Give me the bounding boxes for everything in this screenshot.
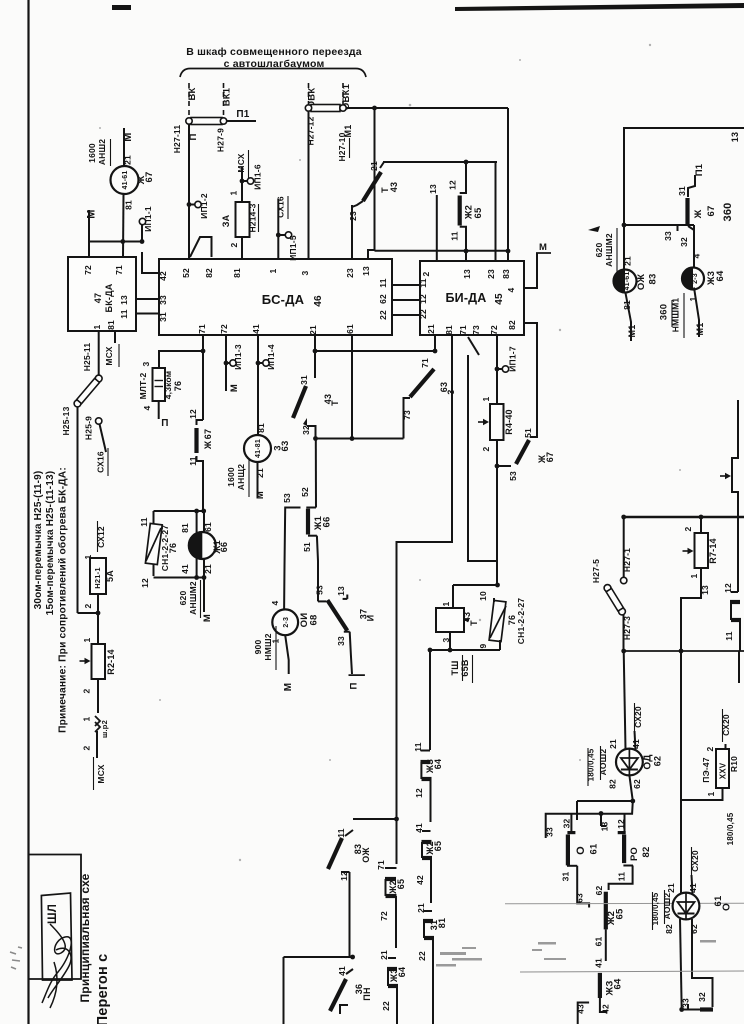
relay 63-3 АНЩ2 1600: [244, 435, 271, 462]
svg-text:И: И: [366, 615, 376, 622]
svg-text:R2-14: R2-14: [106, 649, 116, 675]
bus y957: [284, 956, 353, 958]
svg-text:М: М: [86, 209, 98, 218]
wire BI-DA 71 down: [468, 355, 498, 561]
svg-text:64: 64: [613, 978, 624, 989]
svg-text:П1: П1: [236, 109, 249, 120]
wire ОЖ to M1: [626, 293, 632, 341]
svg-text:ЗА: ЗА: [221, 214, 231, 227]
svg-text:52: 52: [181, 268, 191, 278]
wire to lamp ОД: [624, 651, 626, 749]
scan edge mark top left: [112, 5, 131, 10]
svg-text:R4-40: R4-40: [504, 409, 514, 435]
svg-text:13: 13: [428, 184, 438, 194]
wire chain A down: [396, 819, 398, 864]
svg-text:НМШ2: НМШ2: [263, 633, 273, 660]
svg-text:81: 81: [444, 325, 454, 335]
bus y438: [316, 438, 404, 440]
svg-text:41: 41: [337, 966, 347, 976]
node IP1-5: [276, 233, 281, 238]
left page border: [27, 0, 29, 1024]
svg-text:1: 1: [271, 638, 281, 643]
stub 53 with contact 51 relay 67 Ж: [497, 465, 511, 467]
terminal H27-1: [621, 577, 627, 583]
svg-text:Т: Т: [330, 400, 340, 406]
svg-text:5А: 5А: [105, 570, 115, 582]
bus y650: [430, 649, 500, 651]
bus y351 to BI-DA 21: [315, 350, 435, 352]
hook at BI-DA 73: [468, 337, 479, 355]
fuse H21-1 5A: [90, 558, 106, 594]
svg-text:33: 33: [663, 231, 673, 241]
svg-text:11: 11: [119, 309, 129, 318]
wire Ж3 to M1: [694, 288, 699, 338]
contact 12-11 of relay 65 Ж2: [460, 162, 466, 193]
terminal IP1-7: [502, 366, 508, 372]
terminal IP1-2: [189, 204, 195, 206]
svg-text:Ж2: Ж2: [464, 205, 475, 220]
svg-text:72: 72: [219, 324, 229, 334]
svg-text:БК-ДА: БК-ДА: [104, 283, 114, 312]
svg-text:1600: 1600: [226, 467, 236, 487]
wire OBK to BS-DA pin 3: [308, 112, 310, 260]
svg-text:360: 360: [659, 304, 670, 320]
terminal pair OBK-OBK1: [311, 105, 340, 112]
svg-text:R10: R10: [729, 756, 739, 772]
svg-text:11: 11: [450, 231, 460, 240]
svg-text:360: 360: [722, 203, 734, 222]
contact 33-32 bottom right: [682, 1009, 700, 1011]
svg-text:71: 71: [376, 860, 386, 870]
wire down to left mesh: [576, 801, 578, 820]
svg-text:32: 32: [697, 992, 707, 1002]
svg-text:21: 21: [608, 739, 618, 749]
svg-text:73: 73: [471, 325, 481, 335]
svg-text:51: 51: [302, 542, 312, 552]
wire R10 to lamp O wire: [681, 788, 723, 800]
svg-text:900: 900: [253, 640, 263, 655]
svg-text:3: 3: [300, 270, 310, 275]
svg-text:62: 62: [632, 779, 642, 789]
svg-text:71: 71: [114, 265, 124, 275]
wire plug to MCX: [96, 731, 98, 758]
svg-text:ш.р2: ш.р2: [100, 720, 109, 738]
svg-text:СН1-2-2-27: СН1-2-2-27: [516, 598, 526, 644]
svg-text:ОЖ: ОЖ: [361, 847, 371, 863]
wire ОИ to M: [285, 635, 289, 674]
svg-text:53: 53: [508, 471, 518, 481]
svg-text:Примечание: При сопротивлений: Примечание: При сопротивлений обогрева Б…: [57, 467, 69, 733]
terminal IP1-4: [263, 360, 269, 366]
scan edge mark top right: [455, 3, 744, 11]
svg-text:71: 71: [197, 324, 207, 334]
svg-text:О: О: [575, 846, 587, 855]
svg-text:4: 4: [270, 600, 280, 605]
svg-text:РО: РО: [629, 847, 640, 861]
svg-text:23: 23: [486, 269, 496, 279]
bus wire y162: [383, 161, 497, 163]
svg-text:ТШ: ТШ: [450, 661, 460, 676]
svg-text:11: 11: [378, 278, 388, 287]
svg-text:1: 1: [82, 716, 92, 721]
wire bus to lamp О: [680, 651, 682, 893]
wire node to BI-DA pin 13: [465, 251, 467, 261]
bus y517 thick: [624, 516, 744, 518]
link to MLT resistor: [159, 351, 203, 368]
svg-text:41: 41: [688, 883, 698, 893]
svg-text:81: 81: [180, 523, 190, 533]
big loop from OBK1 wire to BI-DA pin 83: [374, 108, 376, 250]
svg-text:64: 64: [715, 270, 726, 281]
svg-text:Н25-9: Н25-9: [84, 416, 94, 440]
svg-text:30ом-перемычка Н25-(11-9): 30ом-перемычка Н25-(11-9): [33, 471, 44, 610]
wire Ж1 to M: [203, 578, 205, 613]
svg-text:3: 3: [141, 361, 151, 366]
svg-text:1: 1: [441, 601, 451, 606]
svg-text:66: 66: [322, 517, 333, 528]
svg-text:Н27-10: Н27-10: [337, 132, 347, 161]
wire node y813: [546, 801, 633, 838]
svg-text:71: 71: [458, 325, 468, 335]
node IP1-7: [495, 367, 500, 372]
svg-text:22: 22: [378, 310, 388, 320]
svg-text:М: М: [255, 491, 266, 499]
svg-text:АНШМ2: АНШМ2: [604, 233, 614, 267]
svg-text:82: 82: [664, 924, 674, 934]
svg-text:11: 11: [617, 872, 627, 881]
svg-text:Ж: Ж: [136, 175, 147, 185]
svg-text:ЖЗ: ЖЗ: [389, 968, 399, 983]
wire to H27-1: [623, 517, 625, 577]
wire R7-14 down left: [681, 568, 701, 651]
block BS-DA: [159, 259, 392, 335]
wire P to BS-DA pin 52: [188, 125, 190, 260]
wire BK-DA pin 1 to jumper H25-11: [98, 331, 100, 375]
wire P1 right: [227, 120, 256, 122]
svg-text:76: 76: [173, 381, 183, 391]
svg-text:12: 12: [188, 409, 198, 419]
svg-text:М: М: [283, 683, 294, 692]
svg-text:Ж2: Ж2: [425, 841, 435, 856]
svg-text:ВК1: ВК1: [222, 87, 233, 106]
svg-text:Перегон с: Перегон с: [95, 954, 111, 1024]
svg-text:М: М: [539, 242, 547, 253]
svg-text:10: 10: [478, 591, 488, 601]
svg-text:АНШМ2: АНШМ2: [188, 581, 198, 615]
svg-text:15ом-перемычка Н25-(11-13): 15ом-перемычка Н25-(11-13): [45, 471, 56, 616]
svg-text:ИП1-2: ИП1-2: [199, 193, 209, 219]
svg-text:22: 22: [381, 1001, 391, 1011]
wire to BS-DA pin 23: [351, 205, 353, 259]
svg-text:2: 2: [229, 242, 239, 247]
svg-text:41: 41: [180, 564, 190, 574]
svg-text:33: 33: [336, 636, 346, 646]
svg-text:О: О: [722, 903, 733, 911]
svg-text:11: 11: [336, 828, 346, 837]
svg-text:62: 62: [689, 924, 699, 934]
svg-text:33: 33: [545, 827, 555, 837]
wire BS-DA 41 down with IP1-4: [257, 335, 259, 435]
terminal pair BK-BK1: [191, 118, 222, 125]
bus y799: [577, 800, 633, 802]
wire down to contact 52-51: [315, 439, 317, 508]
svg-text:В шкаф совмещенного переезда: В шкаф совмещенного переезда: [186, 46, 362, 58]
wire fuse to BS-DA pin 81: [241, 237, 243, 259]
wire BS-DA 71 down: [202, 335, 204, 420]
svg-text:21: 21: [666, 883, 676, 893]
svg-text:СХ16: СХ16: [96, 451, 106, 473]
svg-text:2: 2: [683, 526, 693, 531]
relay ОИ НМШ2 900: [272, 609, 298, 635]
svg-text:62: 62: [594, 886, 604, 896]
svg-text:СН1-2-2-27: СН1-2-2-27: [160, 525, 170, 571]
wire to BS-DA 42: [142, 252, 159, 273]
svg-text:41-61: 41-61: [122, 171, 129, 190]
faint scan line bottom: [520, 971, 744, 972]
svg-text:82: 82: [204, 268, 214, 278]
stamp box ШЛ: [41, 893, 72, 980]
wire to TSh box: [452, 585, 454, 608]
node IP1-6: [240, 179, 245, 184]
wire R2-14 to plug: [97, 679, 99, 713]
scan noise smudges: [436, 940, 716, 967]
svg-text:Т: Т: [380, 187, 390, 193]
svg-text:12: 12: [418, 294, 428, 304]
svg-text:М: М: [202, 614, 213, 622]
signature: [42, 924, 71, 1008]
svg-text:М: М: [122, 132, 134, 141]
svg-text:31: 31: [429, 920, 439, 930]
block BK-DA: [68, 257, 136, 331]
svg-text:МСХ: МСХ: [96, 764, 106, 783]
jumper H25-11 / H25-13: [74, 375, 102, 407]
svg-text:БИ-ДА: БИ-ДА: [445, 291, 486, 305]
svg-text:21: 21: [123, 155, 133, 165]
bus y511: [154, 510, 204, 512]
svg-text:81: 81: [256, 423, 266, 433]
wire to P stub bottom: [350, 632, 352, 674]
svg-text:71: 71: [420, 358, 430, 368]
svg-text:1: 1: [689, 573, 699, 578]
svg-text:31: 31: [299, 375, 309, 385]
svg-text:ИП1-5: ИП1-5: [288, 235, 298, 261]
wire BI-DA pin 82 right: [524, 323, 537, 430]
svg-text:33: 33: [158, 295, 168, 305]
svg-text:65В: 65В: [460, 659, 470, 676]
svg-text:65: 65: [615, 908, 626, 919]
wire to relay ОЖ: [623, 225, 625, 269]
svg-text:620: 620: [594, 243, 604, 258]
svg-text:Принципиальная схе: Принципиальная схе: [78, 873, 92, 1002]
svg-text:АОШ2: АОШ2: [662, 893, 672, 920]
svg-text:12: 12: [140, 578, 150, 588]
terminal IP1-5: [285, 232, 291, 238]
wire to bottom bus: [349, 872, 351, 957]
svg-text:Н21-1: Н21-1: [93, 567, 102, 588]
svg-text:63: 63: [575, 893, 585, 903]
wire relay Zh down to BK-DA pin 71: [122, 194, 125, 257]
svg-text:72: 72: [379, 911, 389, 921]
wire BI-DA pin 4 to M: [524, 253, 537, 288]
wires BS-DA to BI-DA: [392, 284, 420, 286]
svg-text:62: 62: [653, 756, 663, 766]
M net stub above relay Zh: [123, 128, 125, 167]
svg-text:31: 31: [158, 312, 168, 322]
wire to relay Ж3: [693, 225, 695, 267]
bus y819: [353, 818, 397, 820]
svg-text:61: 61: [589, 843, 600, 854]
svg-text:13: 13: [336, 586, 346, 596]
svg-text:Н27-5: Н27-5: [591, 559, 601, 583]
svg-text:ИП1-4: ИП1-4: [266, 344, 276, 370]
svg-text:1600: 1600: [87, 143, 97, 163]
svg-text:31: 31: [561, 872, 571, 882]
svg-text:83: 83: [501, 269, 511, 279]
svg-text:61: 61: [594, 937, 604, 947]
svg-text:ЖЗ: ЖЗ: [425, 759, 435, 774]
svg-text:45: 45: [494, 293, 505, 305]
svg-text:2: 2: [481, 446, 491, 451]
svg-text:65: 65: [473, 207, 484, 218]
resistor МЛТ-2 4.3ком: [153, 368, 166, 401]
node IP1-2: [187, 202, 192, 207]
svg-text:Н25-11: Н25-11: [82, 343, 92, 372]
svg-text:42: 42: [158, 271, 168, 281]
wire relay 63-3 to M: [257, 462, 259, 497]
svg-text:2: 2: [82, 688, 92, 693]
right edge wire upper: [732, 400, 738, 592]
svg-text:41-81: 41-81: [255, 439, 262, 458]
contact 52-51 relay 66 Ж1: [306, 507, 316, 509]
resistor R4-40: [490, 404, 504, 440]
lamp О АОШ2 180/0.45: [673, 893, 700, 920]
svg-text:81: 81: [106, 320, 116, 330]
svg-text:ПН: ПН: [362, 987, 372, 1000]
stub bottom cut: [340, 1005, 348, 1014]
svg-text:Ж1: Ж1: [212, 540, 222, 555]
node on Zh wire: [120, 239, 125, 244]
dashed lead BK: [188, 83, 190, 117]
svg-text:П: П: [161, 418, 168, 429]
svg-text:П1: П1: [694, 163, 705, 176]
svg-text:М: М: [229, 384, 240, 392]
svg-text:ОЖ: ОЖ: [636, 274, 647, 290]
svg-text:Н25-13: Н25-13: [61, 406, 71, 435]
wire lamp О 62 down hook: [692, 919, 713, 1007]
svg-text:46: 46: [313, 295, 324, 307]
wire BS-DA 72 down with IP1-3: [225, 335, 227, 391]
svg-text:Н27-9: Н27-9: [216, 128, 226, 152]
svg-text:АНЩ2: АНЩ2: [236, 464, 246, 491]
svg-text:180/0,45: 180/0,45: [726, 812, 735, 845]
svg-text:68: 68: [309, 615, 320, 626]
svg-text:21: 21: [379, 950, 389, 960]
wire R4-40 down: [496, 440, 498, 585]
svg-text:13: 13: [462, 269, 472, 279]
svg-text:2: 2: [705, 746, 715, 751]
terminal H25-9 with CX16 tail: [96, 418, 102, 424]
node to TSh: [495, 583, 500, 588]
wire jumper to bus y651: [623, 615, 625, 651]
svg-text:ИП1-6: ИП1-6: [253, 164, 263, 190]
chain wire down from TSh: [429, 650, 431, 750]
right edge stub below bus: [738, 651, 740, 683]
svg-text:4: 4: [142, 405, 152, 410]
svg-text:12: 12: [448, 180, 458, 190]
svg-text:4: 4: [692, 253, 702, 258]
svg-text:9: 9: [478, 643, 488, 648]
bracket: [180, 69, 366, 78]
svg-text:83: 83: [648, 274, 659, 285]
svg-text:1: 1: [706, 791, 716, 796]
wire BK-DA pin 81 to MCX stub: [114, 331, 116, 343]
link y241 to pin 72 wire: [89, 241, 123, 243]
svg-text:ВК: ВК: [187, 87, 198, 100]
svg-text:Н27-12: Н27-12: [306, 116, 316, 145]
svg-text:13: 13: [361, 266, 371, 276]
svg-text:13: 13: [700, 585, 710, 595]
svg-text:32: 32: [679, 237, 689, 247]
lamp ОД АОШ2 180/0.45: [616, 749, 643, 776]
svg-text:ШЛ: ШЛ: [47, 904, 59, 924]
bus 13 top right: [624, 128, 744, 225]
svg-text:41: 41: [594, 958, 604, 968]
svg-text:72: 72: [83, 265, 93, 275]
svg-text:12: 12: [414, 788, 424, 798]
wire lamp ОД down: [629, 775, 632, 801]
node chain A: [394, 817, 399, 822]
svg-text:Ж: Ж: [693, 209, 704, 219]
svg-text:82: 82: [608, 779, 618, 789]
svg-text:31: 31: [677, 186, 687, 196]
svg-text:21: 21: [308, 325, 318, 335]
svg-text:81: 81: [124, 200, 134, 210]
label АНШМ2 620 with arrow: [588, 226, 600, 232]
svg-text:М1: М1: [627, 325, 637, 338]
relay Zh АНШ2 1600: [111, 166, 139, 194]
svg-text:42: 42: [601, 1004, 611, 1014]
wire fuse to node: [97, 594, 99, 644]
wire MLT to P stub: [158, 401, 160, 419]
svg-text:2: 2: [83, 603, 93, 608]
wire lamp О 82 down: [680, 919, 682, 1010]
left margin marks: [10, 947, 22, 969]
svg-text:Ж2: Ж2: [388, 880, 398, 895]
wire BS-DA 61 down: [351, 335, 353, 439]
svg-text:41: 41: [631, 739, 641, 749]
svg-text:42: 42: [415, 875, 425, 885]
svg-text:53: 53: [315, 585, 325, 595]
relay Ж3 НМШМ1 360: [682, 268, 704, 290]
svg-text:620: 620: [178, 591, 188, 606]
svg-text:11: 11: [724, 631, 734, 640]
svg-text:1: 1: [481, 396, 491, 401]
svg-text:4: 4: [506, 287, 516, 292]
svg-text:13: 13: [119, 295, 129, 305]
svg-text:21: 21: [426, 324, 436, 334]
svg-text:22: 22: [417, 951, 427, 961]
svg-text:П: П: [349, 682, 360, 689]
svg-text:2-3: 2-3: [283, 617, 290, 628]
block BI-DA: [420, 261, 524, 335]
svg-text:СХ16: СХ16: [276, 196, 286, 218]
dashed lead OBK1: [342, 83, 344, 104]
link pin52 to pin82: [190, 237, 212, 257]
svg-text:61: 61: [345, 324, 355, 334]
wire MCX to fuse 3A: [241, 167, 243, 202]
svg-text:47: 47: [93, 293, 103, 303]
wire BI-DA 72 to R4-40: [496, 335, 498, 404]
